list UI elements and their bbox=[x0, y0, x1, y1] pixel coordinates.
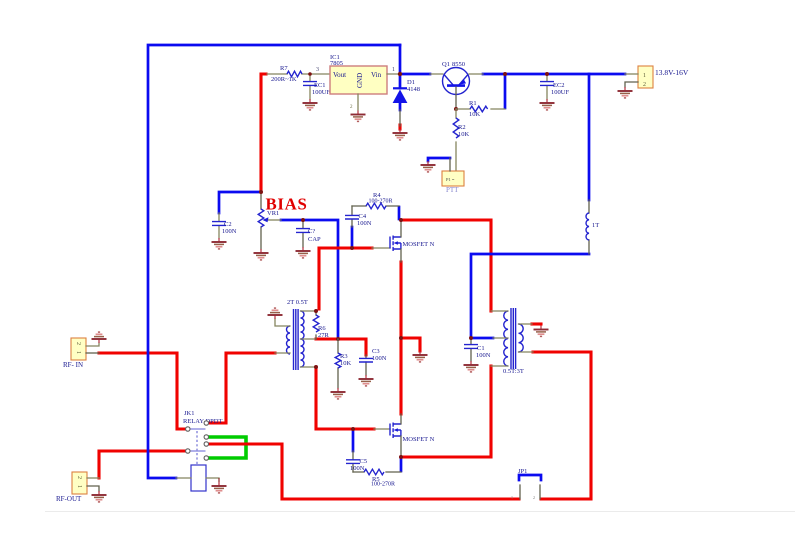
wire red relay NO contact to JP1 bbox=[208, 444, 519, 499]
svg-text:Vin: Vin bbox=[371, 71, 382, 79]
node center tap junction bbox=[336, 337, 340, 341]
transistor Q2 MOSFET N upper bbox=[372, 220, 435, 262]
ground PTT bbox=[421, 161, 436, 172]
node Q1 base bbox=[454, 107, 458, 111]
ground C? bbox=[296, 247, 311, 258]
wire red 5V rail down to VR1 bbox=[261, 74, 266, 192]
wire red center ground stub bbox=[401, 338, 420, 351]
wire blue C4 riser to gate rail bbox=[351, 227, 354, 247]
resistor R2 10K bbox=[453, 109, 469, 171]
svg-text:C4: C4 bbox=[359, 213, 367, 220]
node T1 secondary top bbox=[314, 309, 318, 313]
wire blue C2 to VR1 top bbox=[219, 192, 261, 213]
inductor L1 1T bbox=[586, 200, 599, 254]
ground C1 bbox=[464, 361, 479, 372]
svg-text:3: 3 bbox=[316, 67, 319, 73]
svg-text:PTT: PTT bbox=[446, 186, 459, 194]
svg-text:EC2: EC2 bbox=[553, 82, 565, 89]
svg-text:D1: D1 bbox=[407, 79, 415, 86]
svg-text:R3: R3 bbox=[340, 353, 348, 360]
ground EC2 bbox=[540, 99, 555, 110]
wire red D1 ground stub bbox=[398, 125, 401, 129]
wire blue jumper JP1 bbox=[519, 475, 541, 480]
svg-text:100-270R: 100-270R bbox=[371, 482, 395, 488]
relay coil JK1 bbox=[176, 465, 219, 491]
wire blue R1 riser bbox=[504, 74, 507, 108]
svg-text:R6: R6 bbox=[318, 325, 326, 332]
wire red output secondary to JP1 bbox=[533, 352, 591, 499]
svg-text:1: 1 bbox=[76, 485, 82, 488]
node R1 riser bbox=[503, 72, 507, 76]
svg-text:Q1: Q1 bbox=[442, 61, 450, 68]
ground C2 bbox=[212, 238, 227, 249]
svg-text:RF-OUT: RF-OUT bbox=[56, 495, 82, 503]
svg-text:JK1: JK1 bbox=[184, 410, 194, 417]
capacitor EC2 100UF bbox=[540, 74, 569, 99]
wire blue rail to 1T inductor bbox=[588, 74, 591, 200]
svg-text:Vout: Vout bbox=[333, 71, 346, 79]
connector RF-IN bbox=[63, 338, 99, 369]
connector RF-OUT bbox=[56, 472, 99, 503]
jumper JP1 bbox=[511, 468, 540, 500]
node C1 tap bbox=[469, 336, 473, 340]
ground RF-IN (inverted) bbox=[92, 332, 107, 343]
connector J1 13.8V-16V bbox=[625, 66, 689, 88]
node lower source bbox=[399, 455, 403, 459]
node EC1 bbox=[308, 72, 312, 76]
svg-text:100UF: 100UF bbox=[551, 89, 569, 96]
svg-text:13.8V-16V: 13.8V-16V bbox=[655, 68, 689, 77]
connector PTT bbox=[442, 158, 464, 194]
ground connector J1 bbox=[618, 87, 633, 98]
wire blue 1T inductor to C1 node bbox=[471, 254, 589, 338]
svg-text:100N: 100N bbox=[372, 355, 387, 362]
svg-text:100N: 100N bbox=[357, 220, 372, 227]
capacitor C2 100N bbox=[212, 213, 237, 238]
ground D1 bbox=[393, 129, 408, 140]
ground RF-OUT bbox=[92, 491, 107, 502]
wire red gate rail upper MOSFET bbox=[319, 248, 372, 309]
svg-text:EC1: EC1 bbox=[314, 82, 326, 89]
transformer T1 2T 0.5T bbox=[275, 299, 316, 370]
node CAP tap bbox=[301, 218, 305, 222]
svg-text:MOSFET N: MOSFET N bbox=[403, 436, 435, 443]
wire red transformer bottom-left riser bbox=[489, 366, 492, 457]
diode D1 4148 bbox=[393, 76, 420, 126]
wire blue Vin node to Q1 bbox=[402, 73, 430, 76]
svg-text:0.5T:3T: 0.5T:3T bbox=[503, 368, 524, 375]
wire blue C1 node to output transformer tap bbox=[471, 337, 493, 340]
wire green relay bypass link bbox=[208, 437, 246, 458]
wire blue VR1 wiper to transformer center tap bbox=[281, 220, 338, 339]
svg-text:2: 2 bbox=[643, 82, 646, 88]
wire blue main supply top rail bbox=[148, 45, 400, 478]
svg-text:100N: 100N bbox=[350, 465, 365, 472]
svg-text:1: 1 bbox=[511, 495, 513, 500]
wire red RF-IN to relay common 1 bbox=[99, 353, 185, 429]
svg-text:100UF: 100UF bbox=[312, 89, 330, 96]
svg-text:10K: 10K bbox=[340, 360, 352, 367]
svg-text:P1 =: P1 = bbox=[446, 177, 455, 182]
node C4 tap bbox=[350, 246, 354, 250]
transformer T2 0.5T:3T bbox=[491, 308, 533, 375]
svg-text:2: 2 bbox=[75, 342, 81, 345]
svg-text:1: 1 bbox=[643, 73, 646, 79]
wire red upper source to lower drain bbox=[399, 262, 402, 414]
wire red secondary center tap to C3 bbox=[316, 339, 366, 355]
svg-text:C3: C3 bbox=[372, 348, 380, 355]
svg-text:1: 1 bbox=[75, 351, 81, 354]
svg-text:RELAY DPDT: RELAY DPDT bbox=[183, 418, 222, 425]
node EC2 bbox=[545, 72, 549, 76]
ground T1 primary top (inverted) bbox=[268, 308, 283, 319]
svg-text:R7: R7 bbox=[280, 65, 288, 72]
svg-text:C?: C? bbox=[308, 228, 315, 235]
op-amp regulator IC1 7805 bbox=[330, 54, 398, 110]
svg-text:JP1: JP1 bbox=[518, 468, 527, 475]
capacitor C5 100N bbox=[346, 451, 367, 472]
capacitor EC1 100UF bbox=[303, 74, 330, 99]
transistor Q3 MOSFET N lower bbox=[374, 414, 435, 458]
page divider line bbox=[45, 511, 795, 512]
ground mid tee bbox=[413, 351, 428, 362]
node mid ground tee bbox=[399, 336, 403, 340]
ground VR1 bbox=[254, 249, 269, 260]
transistor Q1 8550 bbox=[430, 61, 483, 109]
ground R3 bbox=[331, 388, 346, 399]
resistor R4 100-270R bbox=[352, 192, 399, 209]
svg-text:1T: 1T bbox=[592, 222, 599, 229]
node Vin bbox=[398, 72, 402, 76]
svg-text:10K: 10K bbox=[458, 131, 470, 138]
wire red lower source to transformer bottom bbox=[401, 455, 490, 458]
wire red RF-OUT to relay common 2 bbox=[99, 451, 185, 478]
wire blue PTT to ground jog bbox=[428, 158, 450, 161]
svg-text:1: 1 bbox=[392, 67, 395, 73]
relay JK1 DPDT bbox=[183, 410, 222, 464]
svg-text:GND: GND bbox=[356, 73, 364, 88]
wire blue Q1 to connector 13.8V bbox=[483, 73, 625, 76]
node VR1 top bbox=[259, 190, 263, 194]
node T1 secondary bottom bbox=[314, 365, 318, 369]
svg-text:100-270R: 100-270R bbox=[369, 199, 393, 205]
node upper drain bbox=[399, 218, 403, 222]
svg-text:R1: R1 bbox=[469, 100, 477, 107]
node C5 tap bbox=[351, 427, 355, 431]
ground T2 secondary top bbox=[534, 326, 549, 337]
wire red gate rail lower MOSFET bbox=[316, 367, 374, 429]
svg-text:R2: R2 bbox=[458, 124, 466, 131]
resistor R6 27R bbox=[313, 311, 329, 339]
resistor R1 10K bbox=[456, 100, 505, 118]
wire blue Q2 source to R5 bbox=[400, 458, 403, 471]
capacitor C? CAP bbox=[296, 220, 321, 247]
capacitor C4 100N bbox=[345, 206, 372, 227]
ground IC1 bbox=[351, 111, 366, 122]
wire blue supply riser to Vin node bbox=[399, 45, 402, 74]
wire blue C5 riser from gate rail bbox=[352, 430, 355, 451]
potentiometer VR1 bbox=[258, 192, 281, 249]
svg-text:100N: 100N bbox=[222, 228, 237, 235]
svg-text:VR1: VR1 bbox=[267, 210, 279, 217]
svg-text:27R: 27R bbox=[318, 332, 330, 339]
ground EC1 bbox=[303, 99, 318, 110]
resistor R7 200R~1K bbox=[267, 65, 330, 83]
svg-text:C2: C2 bbox=[224, 221, 232, 228]
ground C3 bbox=[359, 375, 374, 386]
svg-text:2T 0.5T: 2T 0.5T bbox=[287, 299, 308, 306]
ground relay coil bbox=[212, 482, 227, 493]
svg-text:200R~1K: 200R~1K bbox=[271, 76, 297, 83]
svg-text:2: 2 bbox=[76, 476, 82, 479]
svg-text:CAP: CAP bbox=[308, 236, 321, 243]
capacitor C3 100N bbox=[359, 348, 387, 375]
wire blue R4 riser to drain node bbox=[398, 207, 401, 219]
svg-text:RF- IN: RF- IN bbox=[63, 361, 83, 369]
capacitor C1 100N bbox=[464, 338, 491, 361]
wire red secondary top ground stub bbox=[532, 322, 541, 325]
svg-text:2: 2 bbox=[533, 495, 535, 500]
svg-text:C1: C1 bbox=[477, 345, 485, 352]
wire red relay NC contact to input transformer bbox=[209, 353, 275, 423]
svg-text:4148: 4148 bbox=[407, 86, 420, 93]
svg-text:10K: 10K bbox=[469, 111, 481, 118]
svg-text:C5: C5 bbox=[360, 458, 368, 465]
svg-text:7805: 7805 bbox=[330, 60, 343, 67]
resistor R5 100-270R bbox=[353, 469, 401, 487]
svg-text:MOSFET N: MOSFET N bbox=[403, 241, 435, 248]
wire red upper drain to output transformer top bbox=[401, 220, 491, 311]
svg-text:8550: 8550 bbox=[452, 61, 465, 68]
resistor R3 10K bbox=[335, 339, 351, 388]
svg-text:100N: 100N bbox=[476, 352, 491, 359]
